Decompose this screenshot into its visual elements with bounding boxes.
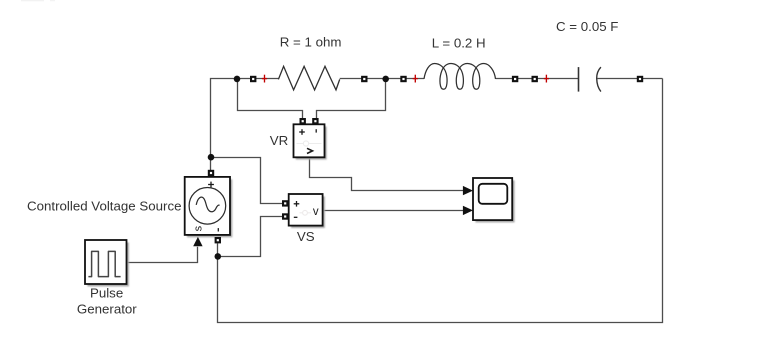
- svg-text:Controlled Voltage Source: Controlled Voltage Source: [27, 198, 182, 213]
- svg-text:R = 1 ohm: R = 1 ohm: [280, 34, 342, 49]
- svg-text:VR: VR: [270, 133, 288, 148]
- svg-text:L = 0.2 H: L = 0.2 H: [432, 35, 486, 50]
- svg-text:C = 0.05 F: C = 0.05 F: [556, 19, 618, 34]
- svg-text:Generator: Generator: [77, 302, 137, 317]
- svg-text:Pulse: Pulse: [90, 286, 123, 301]
- svg-text:VS: VS: [297, 229, 315, 244]
- svg-text:s: s: [193, 225, 205, 231]
- svg-text:v: v: [313, 206, 319, 218]
